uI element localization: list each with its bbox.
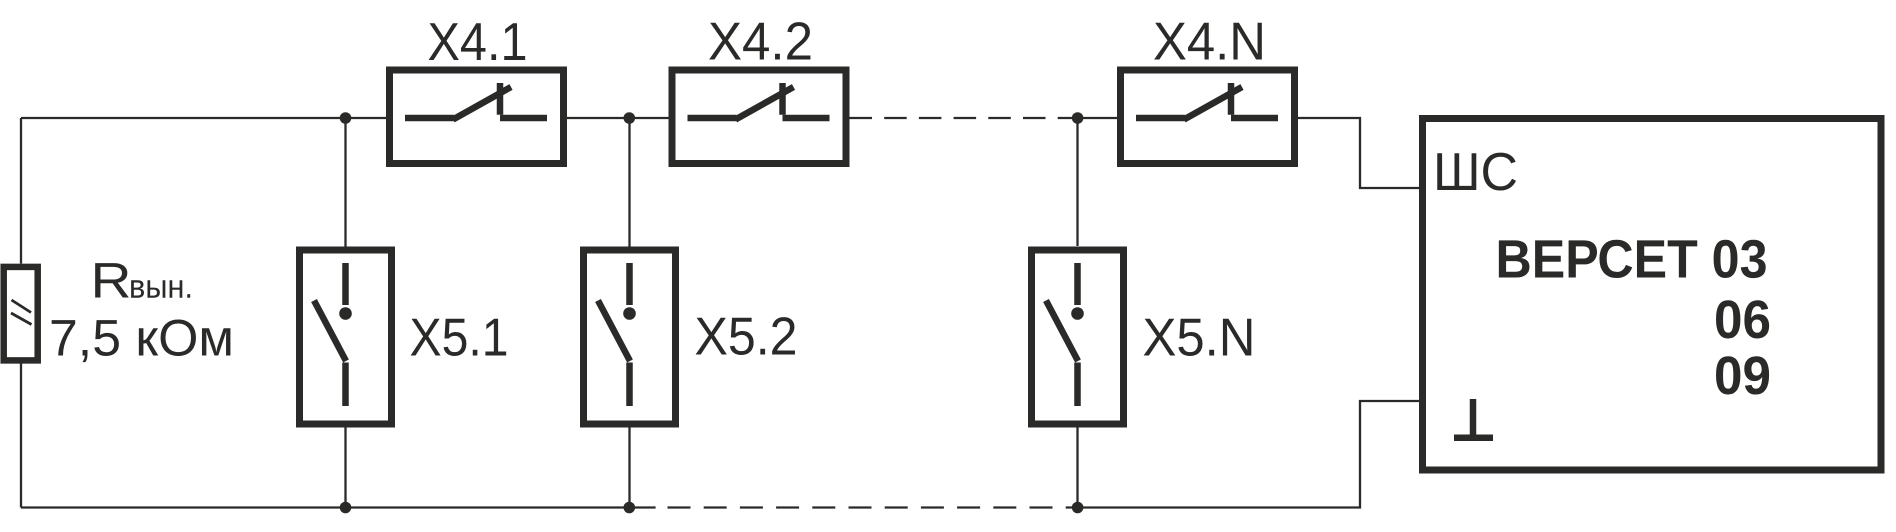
svg-text:X4.N: X4.N <box>1153 13 1266 72</box>
svg-text:09: 09 <box>1714 346 1771 406</box>
svg-text:ВЕРСЕТ 03: ВЕРСЕТ 03 <box>1496 230 1768 290</box>
svg-text:R: R <box>91 253 132 309</box>
svg-text:ШС: ШС <box>1433 143 1518 202</box>
svg-text:X4.2: X4.2 <box>708 13 813 72</box>
svg-text:7,5 кОм: 7,5 кОм <box>49 308 234 366</box>
svg-text:X5.2: X5.2 <box>695 308 798 367</box>
svg-text:X5.N: X5.N <box>1143 309 1256 368</box>
svg-text:X5.1: X5.1 <box>410 308 509 367</box>
svg-text:06: 06 <box>1714 290 1771 350</box>
svg-text:X4.1: X4.1 <box>428 13 528 72</box>
